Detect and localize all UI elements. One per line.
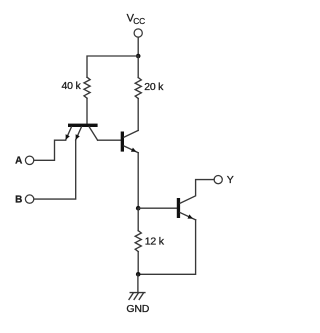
terminal Y: [214, 176, 222, 184]
wire Q1 collector to Q2 base: [98, 139, 121, 141]
wire 12k to node: [137, 252, 139, 275]
wire 40k to Q1 base: [86, 98, 88, 123]
transistor Q3 emitter: [180, 213, 196, 220]
svg-text:A: A: [15, 156, 22, 167]
terminal B: [25, 195, 33, 203]
wire Q2 emitter to node: [137, 153, 139, 209]
transistor Q2 collector: [124, 130, 138, 137]
wire VCC to node: [137, 37, 139, 56]
wire Q3 emitter to node: [138, 220, 195, 274]
transistor Q2 base bar: [121, 132, 124, 152]
node junction top: [136, 54, 141, 59]
terminal A: [25, 156, 33, 164]
wire 20k to Q2 collector: [137, 99, 139, 131]
svg-text:Y: Y: [227, 174, 234, 186]
wire node to 12k: [137, 208, 139, 230]
node junction bottom: [136, 272, 141, 277]
resistor 20k: [135, 78, 141, 99]
wire input B: [34, 140, 76, 199]
svg-text:GND: GND: [126, 303, 149, 315]
wire input A: [34, 140, 66, 160]
transistor Q1 collector: [89, 127, 97, 140]
svg-text:B: B: [15, 194, 22, 205]
transistor Q1 emitter 1: [66, 127, 72, 140]
svg-text:40 k: 40 k: [61, 80, 81, 92]
wire node to 40k: [87, 56, 138, 77]
wire node to 20k: [137, 56, 139, 78]
resistor 40k: [84, 77, 90, 98]
transistor Q1 emitter 2: [76, 127, 82, 140]
transistor Q3 base bar: [177, 198, 180, 218]
wire node to Q3 base: [138, 207, 177, 209]
resistor 12k: [135, 231, 141, 252]
svg-text:CC: CC: [133, 16, 145, 26]
label VCC: [127, 13, 146, 27]
transistor Q1 base bar: [68, 124, 98, 127]
transistor Q2 emitter: [124, 146, 138, 153]
node junction middle: [136, 206, 141, 211]
ground symbol: [129, 293, 145, 300]
svg-text:20 k: 20 k: [144, 81, 164, 93]
svg-text:12 k: 12 k: [145, 235, 165, 247]
terminal VCC: [134, 29, 142, 37]
transistor Q3 collector: [180, 180, 214, 204]
wire node to ground: [137, 274, 139, 292]
